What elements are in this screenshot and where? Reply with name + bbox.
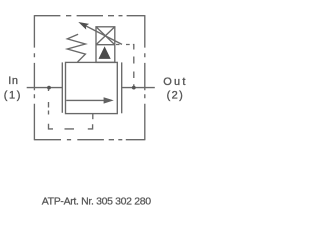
spring — [67, 34, 85, 62]
cartridge left rail — [61, 62, 63, 112]
svg-text:(2): (2) — [167, 90, 185, 102]
pilot dashed bracket — [49, 89, 93, 129]
enclosure frame: right border — [144, 15, 146, 140]
pilot stub below valve — [92, 114, 94, 120]
junction dot on In line — [47, 86, 51, 90]
adjustment arrow — [78, 22, 122, 44]
pilot valve box stack: outer rect — [96, 27, 115, 63]
X in upper box — [96, 27, 115, 45]
enclosure dash-dot frame: top border — [34, 15, 144, 17]
svg-text:In: In — [8, 75, 18, 87]
enclosure frame: bottom border — [34, 139, 144, 141]
enclosure frame: left border — [33, 15, 35, 140]
svg-text:(1): (1) — [4, 89, 22, 101]
vent dashed line (box to Out junction) — [116, 45, 134, 87]
valve body square — [66, 62, 118, 113]
flow path arrow (inside square) — [66, 97, 114, 103]
svg-text:Out: Out — [163, 76, 187, 88]
wire: Out port line — [122, 87, 155, 89]
svg-text:ATP-Art. Nr. 305 302 280: ATP-Art. Nr. 305 302 280 — [42, 195, 151, 207]
junction dot on Out line — [132, 86, 136, 90]
filled triangle in lower box — [99, 46, 111, 59]
box divider — [96, 44, 115, 46]
wire: In port line — [27, 87, 63, 89]
cartridge right rail — [121, 62, 123, 113]
